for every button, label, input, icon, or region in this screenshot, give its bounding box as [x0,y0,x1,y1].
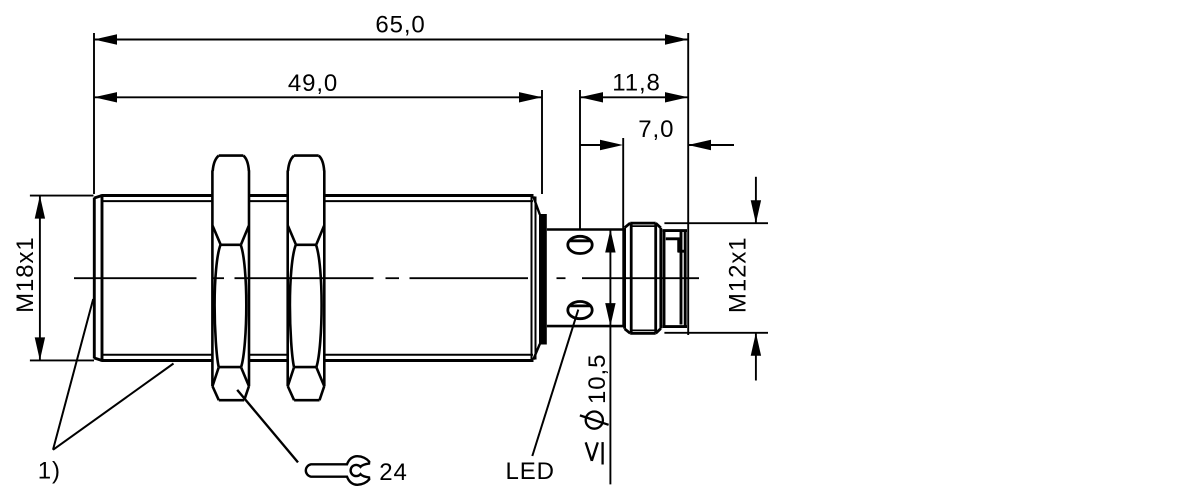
dim dia 10,5 [609,230,611,485]
svg-text:M12x1: M12x1 [725,237,752,314]
thread root lines [102,201,533,355]
svg-text:24: 24 [379,459,408,486]
label diameter symbol [580,412,609,429]
svg-text:LED: LED [506,458,555,485]
dim 7,0 [580,138,734,230]
dim M12x1 [664,177,768,381]
svg-text:M18x1: M18x1 [12,236,39,313]
hex nut 2 [288,156,325,401]
barrel body M18 [102,196,534,361]
dim 65,0 [94,33,688,335]
knurl inner chamfer lines [631,226,654,330]
label less-or-equal (rotated) [586,442,603,464]
centerline [74,277,699,279]
label 1) with leaders [53,299,174,450]
svg-text:7,0: 7,0 [638,116,674,143]
seal band (black) [539,214,547,345]
svg-text:11,8: 11,8 [612,69,661,96]
connector knurl ring [625,223,661,333]
dim 49,0 [94,90,542,194]
dim 11,8 [580,90,688,229]
hex nut 1 [212,156,249,401]
sensing face [94,194,102,361]
dim M18x1 [30,196,94,361]
connector tip M12 with keyway [662,231,687,327]
LED window upper [568,236,592,253]
rear housing dia 10.5 [547,230,624,327]
barrel right end [532,196,536,361]
svg-text:49,0: 49,0 [288,70,338,97]
label LED with leader [532,310,578,456]
svg-text:65,0: 65,0 [375,12,425,39]
svg-text:10,5: 10,5 [584,354,611,404]
svg-text:1): 1) [38,458,61,485]
LED window lower [568,302,592,319]
wrench symbol 24 [237,390,298,463]
